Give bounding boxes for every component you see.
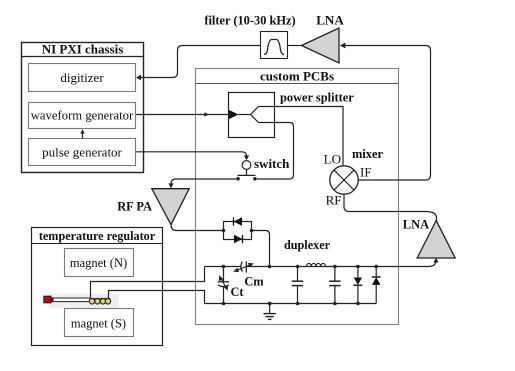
power splitter input arrow and fork: [229, 107, 259, 123]
wire splitter top output to mixer LO: [259, 107, 344, 167]
svg-text:digitizer: digitizer: [60, 70, 104, 85]
mixer U1 circle with X: [330, 166, 358, 194]
op-amp LNA bottom triangle: [417, 221, 455, 259]
op-amp LNA top triangle: [302, 28, 340, 63]
wire waveform generator to power splitter with arrow: [136, 112, 229, 117]
op-amp RF PA triangle: [152, 189, 189, 225]
wire coil lead 2 (bottom) to bottom rail: [109, 291, 205, 304]
svg-text:NI PXI chassis: NI PXI chassis: [42, 42, 124, 57]
waveform generator box: [29, 103, 136, 129]
capacitor Cm (variable, series): [233, 261, 254, 272]
filter F1 box with bandpass curve: [261, 32, 288, 59]
diode D4 (shunt, pointing up): [372, 265, 381, 304]
diode D1 (top, pointing left): [234, 217, 243, 225]
svg-text:LNA: LNA: [316, 13, 344, 28]
svg-text:duplexer: duplexer: [284, 238, 331, 252]
svg-text:magnet (S): magnet (S): [71, 317, 126, 331]
probe coil: [89, 299, 111, 304]
svg-text:Cm: Cm: [244, 275, 264, 289]
svg-text:power splitter: power splitter: [280, 91, 354, 105]
svg-text:RF: RF: [326, 193, 342, 208]
wire mixer IF to LNA input (right loop) with arrow: [340, 43, 431, 180]
probe rod: [52, 298, 90, 302]
main rail wire to LNA input with arrow: [205, 258, 439, 267]
svg-text:IF: IF: [360, 165, 372, 180]
svg-text:RF PA: RF PA: [117, 200, 152, 214]
svg-text:pulse generator: pulse generator: [42, 145, 122, 160]
wire crossed diodes output down to rail: [252, 231, 272, 269]
diode D3 (shunt, pointing down): [354, 265, 363, 306]
probe highlight band: [49, 294, 119, 309]
magnet (S) box: [65, 309, 134, 337]
svg-text:custom PCBs: custom PCBs: [260, 69, 334, 84]
arrow pulse generator to waveform generator: [80, 129, 84, 138]
wire LNA output to filter: [288, 45, 302, 47]
wire switch left contact to RF PA with arrow: [168, 179, 236, 188]
svg-text:magnet (N): magnet (N): [70, 256, 127, 270]
wire RF PA output to crossed diodes: [171, 225, 224, 231]
digitizer box: [29, 64, 136, 92]
capacitor Ct (variable, shunt): [218, 265, 229, 306]
svg-text:waveform generator: waveform generator: [31, 109, 134, 123]
probe red end cap: [44, 296, 51, 303]
svg-text:temperature regulator: temperature regulator: [39, 229, 156, 243]
wire filter to digitizer with arrow: [136, 46, 261, 81]
svg-text:filter (10-30 kHz): filter (10-30 kHz): [204, 14, 295, 28]
capacitor C2 (shunt): [329, 265, 340, 306]
ground: [264, 302, 276, 320]
wire coil lead 1 (top) to tank circuit: [91, 267, 205, 298]
wire splitter bottom output to switch right contact: [257, 123, 294, 180]
svg-text:LO: LO: [324, 152, 341, 167]
pulse generator box: [29, 139, 136, 166]
chassis box NI PXI chassis: [22, 42, 144, 173]
diode D2 (bottom, pointing right): [234, 235, 243, 243]
wire pulse generator to switch with arrow: [136, 152, 249, 161]
crossed diodes box: [222, 222, 254, 240]
inductor L1: [307, 263, 326, 266]
svg-text:mixer: mixer: [352, 147, 383, 161]
wire mixer RF to LNA bottom apex: [344, 194, 437, 220]
temperature regulator box: [32, 228, 163, 346]
switch S1: [236, 161, 257, 181]
power splitter box: [229, 93, 275, 138]
bottom rail wire: [205, 303, 377, 305]
magnet (N) box: [65, 249, 134, 277]
svg-text:LNA: LNA: [403, 218, 429, 232]
svg-text:switch: switch: [254, 156, 290, 171]
custom PCBs box: [196, 69, 399, 325]
svg-text:Ct: Ct: [230, 285, 244, 299]
capacitor C1 (shunt): [292, 265, 303, 306]
